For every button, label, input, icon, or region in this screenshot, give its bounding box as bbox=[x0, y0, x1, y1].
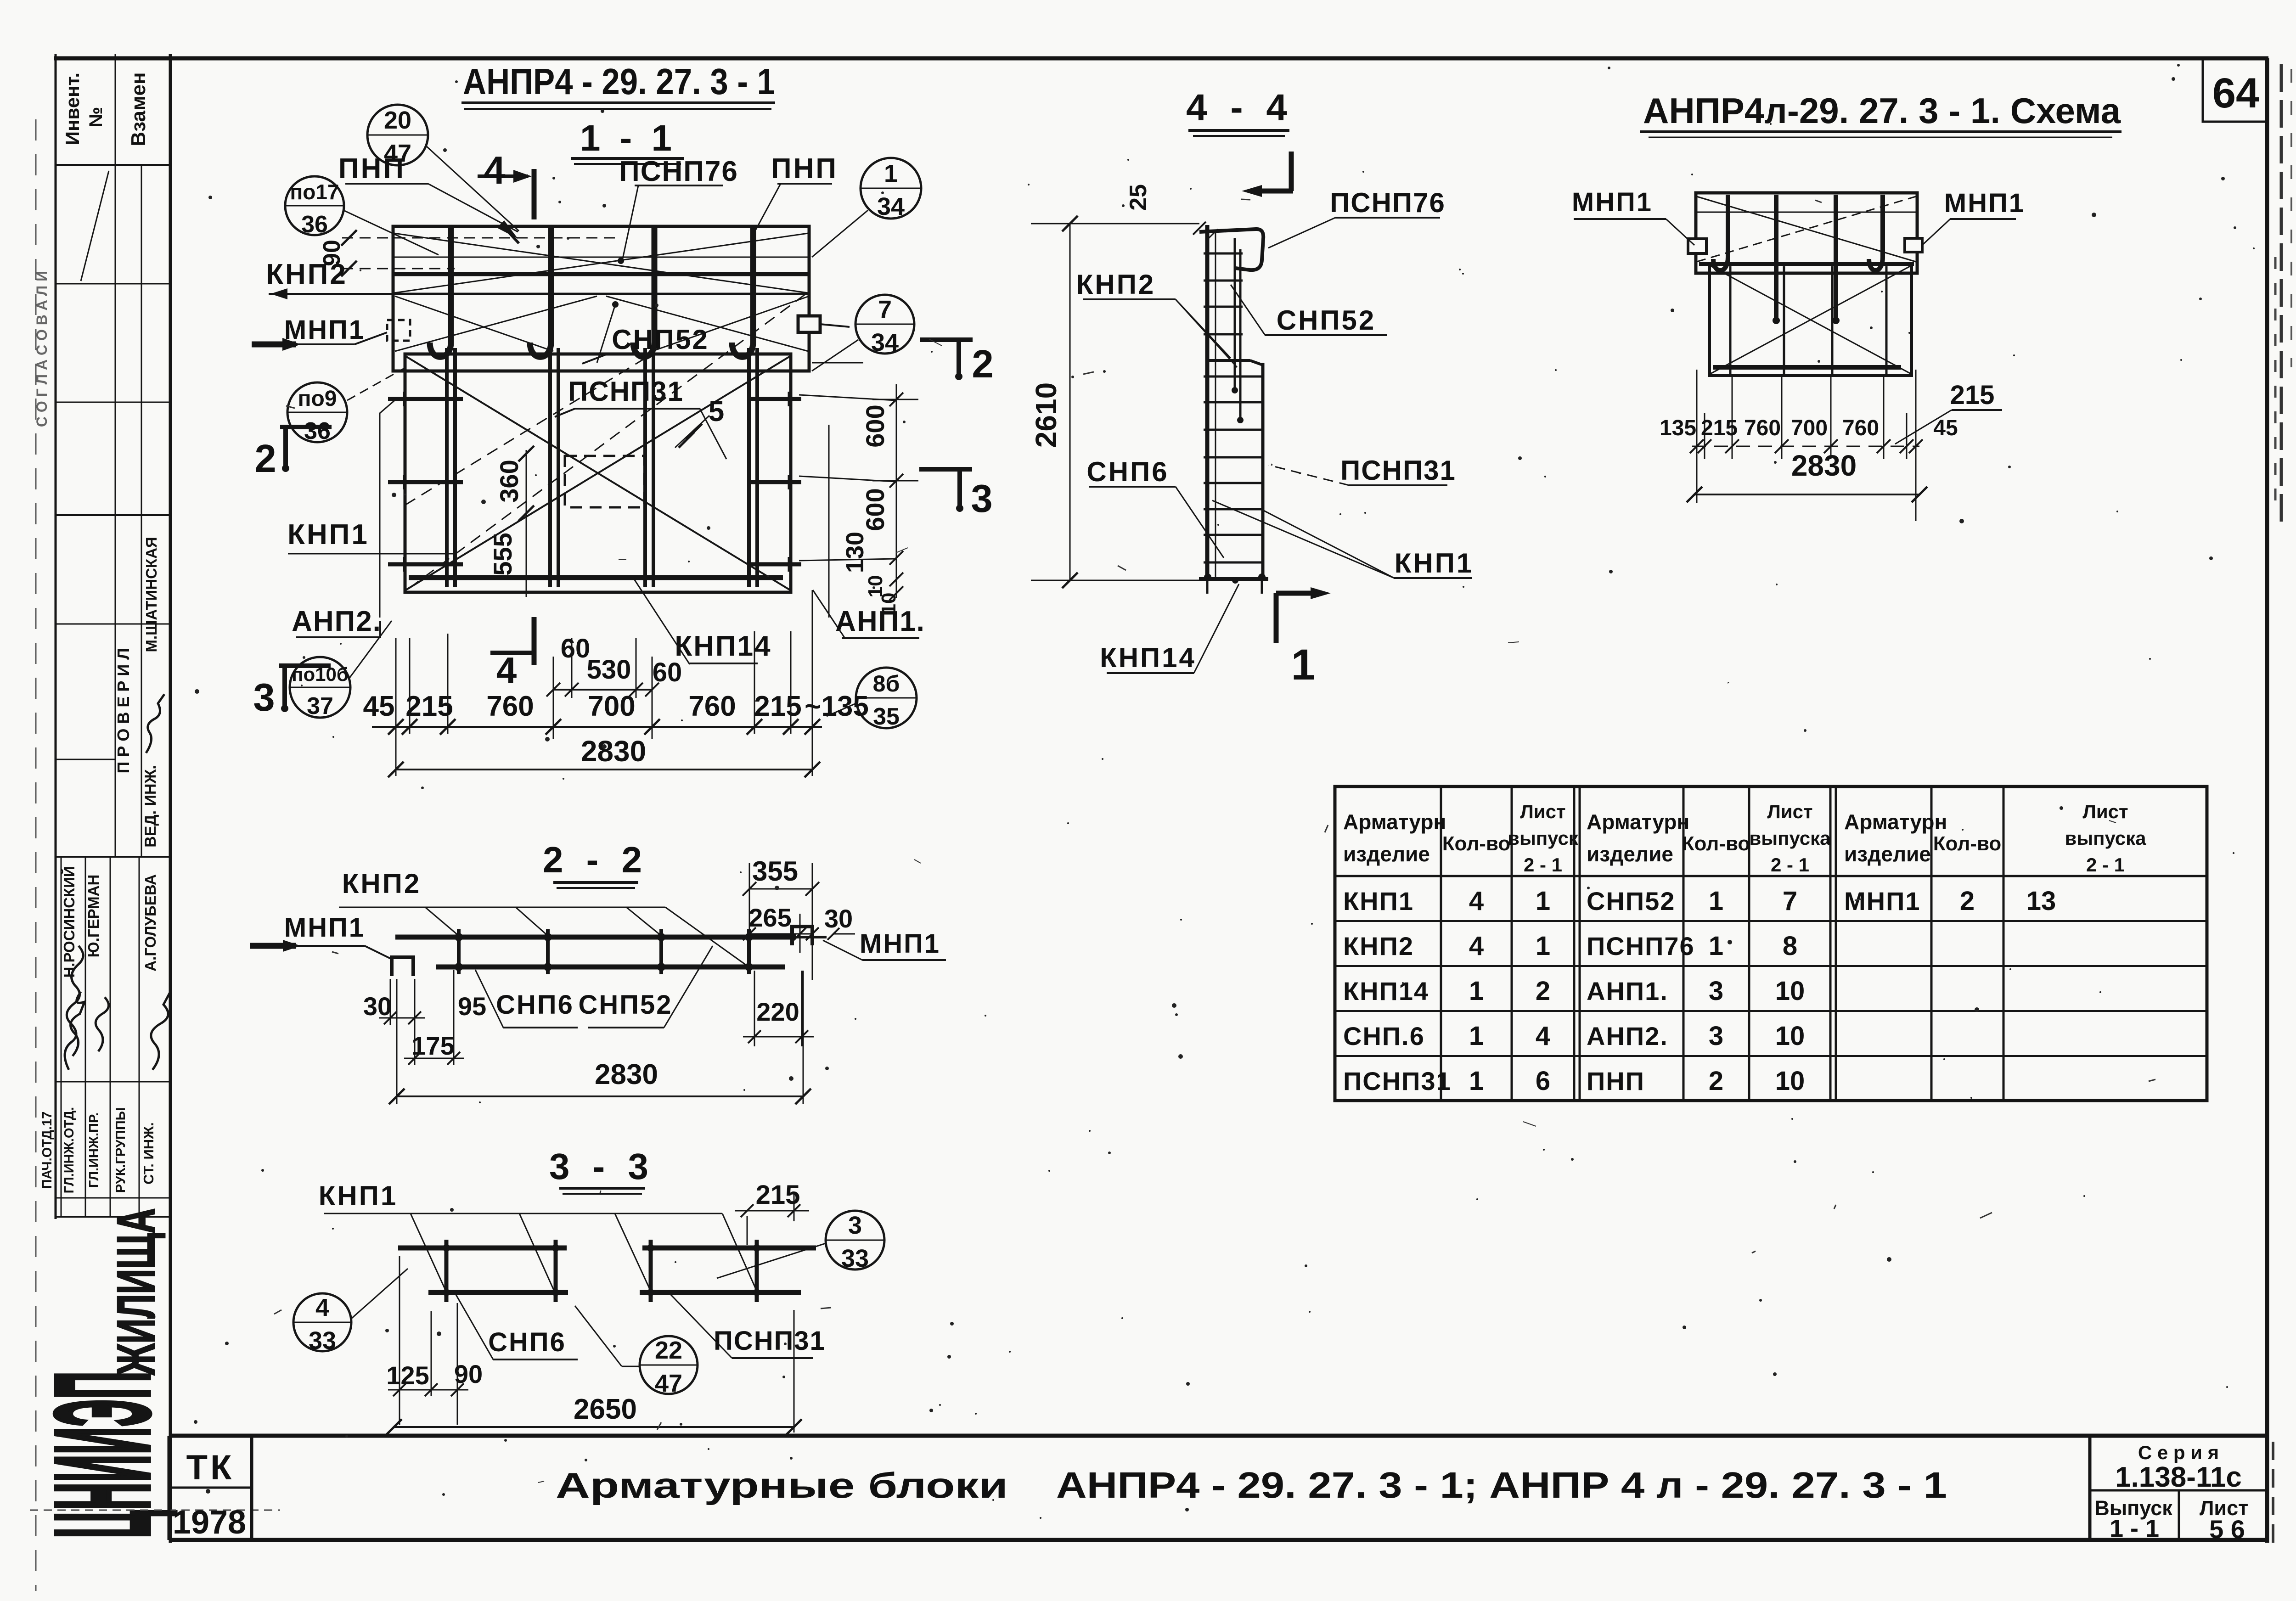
svg-text:2830: 2830 bbox=[1791, 449, 1857, 482]
section mark 3 (left) bbox=[279, 663, 331, 668]
4-4 vertical dim 2610 bbox=[1069, 224, 1071, 580]
title column: left border bbox=[55, 54, 57, 1219]
svg-text:125: 125 bbox=[386, 1361, 429, 1390]
svg-text:ГЛ.ИНЖ.ОТД.: ГЛ.ИНЖ.ОТД. bbox=[62, 1107, 77, 1193]
svg-text:1: 1 bbox=[1536, 931, 1550, 961]
3-3 callout 22/47 bbox=[640, 1336, 698, 1394]
schema hook bars bbox=[1713, 195, 1728, 270]
sheet frame: right border bbox=[2265, 58, 2269, 1543]
right dim stack 600 600 130 10 bbox=[896, 384, 897, 598]
svg-text:ПСНП76: ПСНП76 bbox=[1587, 932, 1695, 961]
svg-text:Арматурн: Арматурн bbox=[1587, 810, 1689, 834]
svg-text:1978: 1978 bbox=[173, 1504, 246, 1541]
svg-text:2 - 1: 2 - 1 bbox=[2086, 854, 2125, 876]
signature 3 bbox=[96, 997, 108, 1051]
svg-text:ПСНП31: ПСНП31 bbox=[568, 376, 684, 407]
svg-text:2 - 2: 2 - 2 bbox=[543, 839, 648, 880]
svg-text:СНП52: СНП52 bbox=[1587, 887, 1675, 916]
page number box 64 bbox=[2203, 58, 2267, 122]
svg-text:64: 64 bbox=[2212, 70, 2259, 117]
svg-text:АНП2.: АНП2. bbox=[1587, 1022, 1668, 1050]
3-3 assembly A2 top bar bbox=[642, 1246, 816, 1251]
title column row line y1122 bbox=[56, 514, 170, 516]
svg-text:45: 45 bbox=[363, 691, 395, 722]
title column row line y359 bbox=[56, 164, 170, 166]
svg-text:3 - 3: 3 - 3 bbox=[549, 1146, 655, 1187]
svg-text:~135: ~135 bbox=[805, 691, 869, 722]
upper beam shallow cross diagonals bbox=[394, 233, 808, 293]
2-2 top chord МНП1 bbox=[395, 935, 796, 940]
svg-text:по17: по17 bbox=[290, 180, 339, 204]
2-2 МНП1 marker right bbox=[792, 927, 812, 945]
svg-text:изделие: изделие bbox=[1587, 842, 1673, 866]
svg-text:КНП1: КНП1 bbox=[287, 519, 369, 551]
svg-text:СНП6: СНП6 bbox=[1086, 456, 1169, 487]
svg-text:33: 33 bbox=[841, 1245, 869, 1272]
dim extension lines bbox=[395, 638, 397, 776]
svg-text:Лист: Лист bbox=[1767, 801, 1812, 822]
svg-text:700: 700 bbox=[1791, 416, 1828, 440]
svg-text:34: 34 bbox=[877, 193, 905, 220]
3-3 assembly A1 bottom bar bbox=[428, 1290, 568, 1295]
callout circle по9/36 bbox=[287, 382, 347, 442]
svg-text:Арматурн: Арматурн bbox=[1844, 810, 1947, 834]
svg-text:по9: по9 bbox=[298, 387, 337, 411]
svg-text:МНП1: МНП1 bbox=[284, 913, 365, 943]
3-3 assembly A2 bottom bar bbox=[640, 1290, 801, 1295]
svg-text:АНП2.: АНП2. bbox=[292, 606, 382, 637]
svg-text:10: 10 bbox=[878, 593, 900, 615]
svg-text:2: 2 bbox=[1960, 886, 1975, 916]
svg-text:П Р О В Е Р И Л: П Р О В Е Р И Л bbox=[114, 648, 133, 773]
fold dashed line bbox=[30, 1510, 280, 1511]
svg-text:МНП1: МНП1 bbox=[860, 929, 940, 959]
left leader line to АНП2 bbox=[379, 413, 381, 618]
svg-text:8: 8 bbox=[1783, 931, 1797, 961]
svg-text:7: 7 bbox=[1783, 886, 1797, 916]
sheet frame: top border bbox=[54, 56, 2268, 61]
svg-text:2: 2 bbox=[254, 437, 276, 481]
svg-text:7: 7 bbox=[878, 296, 892, 323]
svg-text:10: 10 bbox=[1775, 1066, 1805, 1096]
svg-text:СНП6: СНП6 bbox=[496, 990, 574, 1020]
svg-text:Арматурные блоки: Арматурные блоки bbox=[556, 1465, 1008, 1506]
svg-text:215: 215 bbox=[754, 691, 801, 722]
svg-text:45: 45 bbox=[1933, 416, 1958, 440]
svg-text:Кол-во: Кол-во bbox=[1933, 832, 2002, 855]
svg-text:1: 1 bbox=[1709, 931, 1723, 961]
callout circle 8б/35 bbox=[856, 668, 917, 728]
svg-text:РУК.ГРУППЫ: РУК.ГРУППЫ bbox=[113, 1107, 128, 1193]
svg-text:215: 215 bbox=[1950, 380, 1995, 410]
svg-text:КНП2: КНП2 bbox=[266, 258, 348, 290]
svg-text:Арматурн: Арматурн bbox=[1343, 810, 1446, 834]
svg-text:2830: 2830 bbox=[595, 1059, 658, 1090]
svg-text:М.ШАТИНСКАЯ: М.ШАТИНСКАЯ bbox=[143, 537, 160, 652]
svg-text:ПАЧ.ОТД.17: ПАЧ.ОТД.17 bbox=[40, 1112, 55, 1189]
4-4 section mark 1 bottom bbox=[1274, 593, 1279, 643]
svg-text:ПСНП76: ПСНП76 bbox=[1330, 187, 1446, 218]
schema dim extensions bbox=[1696, 370, 1698, 503]
callout circle 1/34 bbox=[861, 158, 921, 219]
title column row line y1866 bbox=[56, 856, 170, 858]
svg-text:СТ. ИНЖ.: СТ. ИНЖ. bbox=[141, 1122, 157, 1185]
svg-text:КНП14: КНП14 bbox=[675, 630, 771, 662]
svg-text:2: 2 bbox=[972, 343, 993, 386]
title column partial row line bbox=[56, 759, 115, 760]
svg-text:95: 95 bbox=[458, 992, 486, 1021]
3-3 callout 4/33 bbox=[293, 1293, 351, 1351]
svg-text:22: 22 bbox=[655, 1337, 682, 1364]
svg-text:1 - 1: 1 - 1 bbox=[2110, 1515, 2159, 1542]
svg-text:600: 600 bbox=[861, 404, 889, 447]
schema upper beam bbox=[1696, 193, 1917, 273]
schema lower verticals bbox=[1729, 266, 1732, 374]
svg-text:36: 36 bbox=[304, 418, 331, 444]
title column row line y2650 bbox=[56, 1216, 170, 1218]
svg-text:выпуск: выпуск bbox=[1508, 827, 1579, 849]
svg-text:ПСНП31: ПСНП31 bbox=[714, 1326, 826, 1356]
svg-text:25: 25 bbox=[1125, 184, 1152, 211]
svg-text:ВЕД. ИНЖ.: ВЕД. ИНЖ. bbox=[142, 765, 159, 848]
svg-text:10: 10 bbox=[1775, 976, 1805, 1006]
callout circle 7/34 bbox=[855, 295, 914, 354]
svg-text:4: 4 bbox=[1536, 1021, 1550, 1051]
table column lines bbox=[1440, 786, 1442, 1101]
section mark 4 (top) bbox=[478, 174, 528, 178]
scan scratches bbox=[1523, 1122, 1536, 1126]
svg-text:30: 30 bbox=[363, 992, 392, 1021]
signature 2 bbox=[71, 992, 84, 1056]
svg-text:10: 10 bbox=[1775, 1021, 1805, 1051]
svg-text:2 - 1: 2 - 1 bbox=[1524, 854, 1562, 876]
svg-text:изделие: изделие bbox=[1844, 842, 1931, 866]
callout circle 20/47 bbox=[367, 105, 428, 165]
svg-text:С О Г Л А С О В А Л И: С О Г Л А С О В А Л И bbox=[34, 271, 50, 427]
upper beam dashed tie line bbox=[342, 237, 621, 239]
side tie bars (КНП edge view) bbox=[388, 397, 463, 401]
svg-text:2610: 2610 bbox=[1030, 382, 1063, 448]
svg-text:изделие: изделие bbox=[1343, 842, 1430, 866]
callout circle по17/36 bbox=[285, 176, 344, 235]
3-3 callout 3/33 bbox=[826, 1211, 884, 1270]
schema МНП1 marker right bbox=[1905, 238, 1922, 252]
svg-text:355: 355 bbox=[752, 856, 798, 887]
section mark 2 (right) bbox=[920, 337, 973, 342]
svg-text:1.138-11с: 1.138-11с bbox=[2115, 1461, 2242, 1493]
svg-text:С е р и я: С е р и я bbox=[2138, 1442, 2219, 1463]
svg-text:ПНП: ПНП bbox=[771, 153, 838, 185]
svg-text:4: 4 bbox=[1469, 931, 1484, 961]
section mark 4 (bottom) bbox=[490, 651, 533, 655]
svg-text:КНП1: КНП1 bbox=[1395, 548, 1474, 579]
upper beam outline bbox=[393, 226, 809, 371]
lower block outline bbox=[405, 354, 791, 592]
svg-text:60: 60 bbox=[561, 634, 591, 663]
svg-text:КНП1: КНП1 bbox=[319, 1180, 398, 1211]
svg-text:СНП52: СНП52 bbox=[612, 324, 709, 355]
schema МНП1 marker left bbox=[1688, 239, 1706, 253]
svg-text:АНПР4 - 29. 27. 3 - 1; АНПР 4: АНПР4 - 29. 27. 3 - 1; АНПР 4 л - 29. 27… bbox=[1056, 1465, 1947, 1506]
svg-text:КНП14: КНП14 bbox=[1100, 642, 1196, 673]
title column row line y2356 bbox=[56, 1081, 170, 1083]
4-4 ladder right rail lower bbox=[1261, 363, 1265, 580]
svg-text:215: 215 bbox=[405, 691, 453, 722]
svg-text:МНП1: МНП1 bbox=[1572, 187, 1653, 217]
bottom title bar: top line bbox=[169, 1434, 2267, 1438]
callout circle по10б/37 bbox=[290, 657, 350, 718]
svg-text:1: 1 bbox=[1291, 640, 1316, 689]
svg-text:Взамен: Взамен bbox=[127, 72, 150, 146]
3-3 assembly A1 verticals bbox=[445, 1240, 449, 1302]
svg-text:Лист: Лист bbox=[1520, 801, 1565, 822]
svg-text:выпуска: выпуска bbox=[1749, 827, 1831, 849]
4-4 rungs lower bbox=[1204, 376, 1263, 378]
svg-text:4 - 4: 4 - 4 bbox=[1186, 87, 1294, 129]
table row lines bbox=[1335, 920, 2207, 922]
4-4 step bracket ПСНП31 bbox=[1206, 359, 1250, 362]
title column row line y2609 bbox=[56, 1197, 170, 1199]
svg-text:3: 3 bbox=[971, 477, 992, 521]
svg-text:47: 47 bbox=[655, 1370, 682, 1397]
upper beam inner line thin bbox=[393, 257, 809, 258]
svg-text:выпуска: выпуска bbox=[2065, 827, 2146, 849]
svg-text:КНП2: КНП2 bbox=[342, 868, 421, 899]
svg-text:760: 760 bbox=[1744, 416, 1781, 440]
hook bar ПНП 3 bbox=[633, 228, 654, 357]
svg-text:760: 760 bbox=[1842, 416, 1879, 440]
svg-text:3: 3 bbox=[848, 1212, 862, 1239]
2-2 bottom chord bbox=[436, 965, 785, 970]
svg-text:3: 3 bbox=[253, 676, 275, 719]
4-4 ladder left rail bbox=[1205, 225, 1210, 580]
svg-text:Кол-во: Кол-во bbox=[1682, 832, 1750, 855]
svg-text:2650: 2650 bbox=[574, 1393, 637, 1425]
МНП1 marker right (plate) bbox=[798, 316, 820, 332]
2-2 МНП1 marker left bbox=[392, 957, 413, 976]
svg-text:8б: 8б bbox=[873, 671, 900, 697]
stray diagonal in inventory row bbox=[81, 171, 109, 281]
svg-text:КНП1: КНП1 bbox=[1343, 887, 1414, 916]
title column divider x251 bbox=[115, 54, 116, 857]
4-4 rungs upper bbox=[1204, 253, 1243, 255]
title column divider x308 bbox=[141, 165, 142, 857]
svg-text:135: 135 bbox=[1660, 416, 1696, 440]
long dashed diagonal bbox=[409, 294, 806, 589]
hook bar ПНП 2 bbox=[530, 228, 551, 357]
section mark 3 (right) bbox=[919, 467, 972, 472]
svg-text:ПСНП31: ПСНП31 bbox=[1340, 455, 1456, 486]
title column row line y618 bbox=[56, 283, 170, 285]
4-4 top flange ПСНП76 bbox=[1199, 229, 1263, 270]
svg-text:2: 2 bbox=[1709, 1066, 1723, 1096]
svg-text:5: 5 bbox=[709, 396, 724, 427]
svg-text:ЖИЛИЩА: ЖИЛИЩА bbox=[106, 1208, 166, 1375]
svg-text:СНП.6: СНП.6 bbox=[1343, 1022, 1425, 1050]
title column row line y1359 bbox=[56, 624, 170, 625]
svg-text:760: 760 bbox=[688, 691, 736, 722]
schema dashed dim line bbox=[1692, 446, 1919, 447]
chief cursive note bbox=[65, 946, 83, 1070]
svg-text:360: 360 bbox=[495, 460, 523, 502]
svg-text:1 - 1: 1 - 1 bbox=[580, 118, 676, 158]
4-4 bottom chord bbox=[1199, 577, 1268, 581]
series box bbox=[2088, 1436, 2092, 1540]
3-3 assembly A1 top bar bbox=[398, 1246, 567, 1251]
svg-text:700: 700 bbox=[588, 691, 635, 722]
schema lower block bbox=[1710, 264, 1912, 376]
svg-text:МНП1: МНП1 bbox=[1844, 887, 1920, 916]
upper beam inner line thick bbox=[393, 272, 809, 276]
lower block bottom chord (thick) bbox=[409, 575, 783, 580]
svg-text:№: № bbox=[86, 107, 106, 128]
weld arrow upper-left bbox=[497, 220, 518, 239]
mid band diagonals bbox=[395, 296, 597, 351]
svg-text:5 6: 5 6 bbox=[2209, 1515, 2245, 1544]
svg-text:600: 600 bbox=[861, 488, 889, 531]
svg-text:Лист: Лист bbox=[2082, 801, 2128, 822]
svg-text:1: 1 bbox=[1469, 976, 1484, 1006]
svg-text:КНП14: КНП14 bbox=[1343, 977, 1429, 1006]
svg-text:90: 90 bbox=[454, 1359, 483, 1388]
svg-text:2830: 2830 bbox=[581, 735, 646, 768]
parts table frame bbox=[1335, 786, 2207, 1101]
svg-text:АНПР4л-29. 27. 3 - 1. Схема: АНПР4л-29. 27. 3 - 1. Схема bbox=[1643, 90, 2121, 131]
svg-text:ПСНП31: ПСНП31 bbox=[1343, 1067, 1452, 1095]
svg-text:3: 3 bbox=[1709, 1021, 1723, 1051]
TK box bbox=[168, 1436, 171, 1540]
svg-text:760: 760 bbox=[486, 691, 534, 722]
title column row line y876 bbox=[56, 402, 170, 403]
section mark 2 (left) bbox=[280, 425, 332, 429]
svg-text:34: 34 bbox=[871, 329, 899, 356]
svg-text:КНП2: КНП2 bbox=[1076, 269, 1155, 300]
svg-text:4: 4 bbox=[496, 650, 517, 691]
svg-text:А.ГОЛУБЕВА: А.ГОЛУБЕВА bbox=[142, 874, 159, 972]
svg-text:Ю.ГЕРМАН: Ю.ГЕРМАН bbox=[85, 875, 102, 958]
svg-text:215: 215 bbox=[1701, 416, 1738, 440]
svg-text:33: 33 bbox=[309, 1327, 336, 1354]
svg-text:ПНП: ПНП bbox=[1587, 1067, 1645, 1095]
upper beam inner line mid bbox=[393, 293, 809, 295]
dashed opening bbox=[565, 456, 644, 507]
svg-text:1: 1 bbox=[1709, 886, 1723, 916]
svg-text:130: 130 bbox=[841, 532, 869, 573]
lower block X diagonals bbox=[405, 356, 791, 590]
scan edge marks right bbox=[2280, 64, 2283, 528]
svg-text:530: 530 bbox=[587, 655, 631, 685]
4-4 section mark 1 top bbox=[1289, 152, 1294, 191]
svg-text:АНП1.: АНП1. bbox=[1587, 977, 1668, 1006]
hook bar ПНП 1 bbox=[430, 228, 451, 357]
title column: right border bbox=[169, 54, 172, 1543]
svg-text:1: 1 bbox=[1536, 886, 1550, 916]
svg-text:60: 60 bbox=[653, 657, 682, 687]
svg-text:Инвент.: Инвент. bbox=[62, 73, 83, 145]
svg-text:СНП52: СНП52 bbox=[579, 990, 673, 1020]
svg-text:35: 35 bbox=[873, 703, 900, 730]
svg-text:ПСНП76: ПСНП76 bbox=[619, 156, 738, 187]
svg-text:4: 4 bbox=[1469, 886, 1484, 916]
crew strip dividers bbox=[61, 857, 62, 1217]
sheet frame: left page edge dashed line bbox=[35, 119, 37, 1591]
bottom title bar: bottom line bbox=[169, 1538, 2267, 1542]
МНП1 marker left (dashed square) bbox=[387, 320, 410, 341]
svg-text:СНП6: СНП6 bbox=[488, 1327, 566, 1357]
svg-text:36: 36 bbox=[301, 211, 328, 238]
3-3 assembly A2 verticals bbox=[649, 1240, 653, 1302]
svg-text:КНП2: КНП2 bbox=[1343, 932, 1414, 961]
checker signature bbox=[146, 694, 164, 753]
2-2 verticals with welds bbox=[457, 929, 461, 974]
svg-text:АНПР4 - 29. 27. 3 - 1: АНПР4 - 29. 27. 3 - 1 bbox=[463, 61, 775, 102]
4-4 inner bar СНП52 bbox=[1234, 238, 1236, 388]
svg-text:по10б: по10б bbox=[292, 663, 349, 685]
svg-text:2 - 1: 2 - 1 bbox=[1771, 854, 1809, 876]
svg-text:6: 6 bbox=[1536, 1066, 1550, 1096]
svg-text:МНП1: МНП1 bbox=[1944, 188, 2025, 218]
svg-text:1: 1 bbox=[884, 160, 898, 187]
lower block vertical bar pairs bbox=[445, 348, 449, 587]
svg-text:1: 1 bbox=[1469, 1066, 1484, 1096]
svg-text:220: 220 bbox=[756, 997, 799, 1026]
hook bar ПНП 4 bbox=[732, 228, 753, 357]
svg-text:Н.РОСИНСКИЙ: Н.РОСИНСКИЙ bbox=[60, 866, 78, 977]
svg-text:ГЛ.ИНЖ.ПР.: ГЛ.ИНЖ.ПР. bbox=[87, 1112, 101, 1188]
svg-text:4: 4 bbox=[484, 149, 505, 192]
svg-text:СНП52: СНП52 bbox=[1277, 305, 1376, 336]
svg-text:4: 4 bbox=[315, 1294, 329, 1321]
svg-text:ПНП: ПНП bbox=[338, 153, 405, 185]
svg-text:МНП1: МНП1 bbox=[284, 315, 365, 345]
svg-text:3: 3 bbox=[1709, 976, 1723, 1006]
svg-text:37: 37 bbox=[307, 693, 333, 719]
svg-text:ТК: ТК bbox=[186, 1448, 235, 1487]
table header line bbox=[1335, 875, 2207, 877]
svg-text:1: 1 bbox=[1469, 1021, 1484, 1051]
4-4 inner bar 2 bbox=[1239, 249, 1242, 417]
svg-text:Кол-во: Кол-во bbox=[1442, 832, 1511, 855]
svg-text:13: 13 bbox=[2026, 886, 2056, 916]
svg-text:ЦНИИЭП: ЦНИИЭП bbox=[28, 1371, 177, 1538]
svg-text:2: 2 bbox=[1536, 976, 1550, 1006]
signature 4 bbox=[151, 991, 171, 1070]
svg-text:555: 555 bbox=[488, 533, 517, 575]
svg-text:20: 20 bbox=[384, 107, 411, 134]
